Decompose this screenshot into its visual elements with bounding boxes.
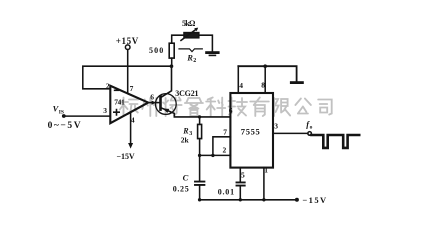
svg-text:6: 6 (150, 92, 154, 101)
svg-text:2: 2 (106, 82, 110, 91)
svg-text:0.01: 0.01 (218, 187, 234, 196)
svg-text:6: 6 (229, 106, 233, 115)
svg-text:−15V: −15V (117, 152, 135, 161)
svg-text:C: C (183, 172, 189, 182)
svg-text:0.25: 0.25 (173, 185, 189, 194)
svg-text:5: 5 (241, 170, 245, 179)
svg-text:2: 2 (223, 145, 227, 154)
svg-text:2k: 2k (181, 136, 190, 145)
svg-text:o: o (310, 125, 313, 131)
svg-text:3: 3 (103, 106, 107, 115)
svg-text:2: 2 (193, 58, 196, 64)
svg-text:8: 8 (261, 80, 265, 89)
svg-text:7: 7 (223, 128, 227, 137)
svg-text:1: 1 (264, 166, 268, 175)
svg-text:+15V: +15V (116, 36, 139, 46)
svg-text:3: 3 (189, 131, 192, 137)
svg-text:4: 4 (131, 115, 135, 124)
svg-text:−15V: −15V (302, 195, 327, 205)
svg-text:500: 500 (149, 46, 163, 55)
svg-text:7555: 7555 (241, 127, 260, 137)
svg-text:4: 4 (239, 81, 243, 90)
svg-text:3CG21: 3CG21 (175, 89, 198, 98)
svg-text:5kΩ: 5kΩ (182, 19, 196, 28)
svg-text:3: 3 (274, 122, 278, 131)
svg-text:IS: IS (59, 109, 64, 115)
svg-text:741: 741 (114, 97, 125, 106)
svg-text:R: R (186, 53, 193, 63)
svg-text:R: R (182, 127, 189, 136)
svg-text:7: 7 (130, 84, 134, 93)
